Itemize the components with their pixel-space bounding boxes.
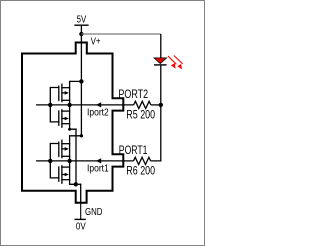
drain/source vertical bus Q2 <box>70 81 82 129</box>
svg-text:Iport2: Iport2 <box>87 107 109 118</box>
junction dot gate/port2 <box>48 103 52 107</box>
current arrow Iport1 <box>96 158 101 163</box>
junction blob V+ corner <box>80 134 83 137</box>
transistor Q1a <box>58 142 60 156</box>
gate bracket wire PORT1 cell <box>50 144 59 178</box>
resistor R5 200 <box>134 101 151 108</box>
svg-text:R5 200: R5 200 <box>126 108 155 122</box>
node V+ junction dot at top <box>79 32 83 36</box>
svg-text:PORT1: PORT1 <box>119 143 148 157</box>
svg-text:GND: GND <box>85 207 102 218</box>
wire V+ to LED (gray) <box>81 33 160 35</box>
svg-text:Iport1: Iport1 <box>87 163 109 174</box>
wire LED cathode down to R5 node <box>160 65 162 105</box>
IC block outline with port tabs <box>22 43 123 203</box>
junction dot gate/port1 <box>48 159 52 163</box>
current arrow Iport2 <box>96 102 101 107</box>
junction dot bus/port2 <box>67 103 71 107</box>
source line from Q2 cell down <box>75 129 77 184</box>
transistor Q1b (mirrored) <box>58 167 60 181</box>
ground symbol <box>75 218 86 220</box>
svg-text:PORT2: PORT2 <box>118 87 148 101</box>
LED emission arrows <box>168 56 183 70</box>
gate bracket wire (gates tied) <box>50 88 59 122</box>
transistor pair cell for PORT2 <box>50 81 81 219</box>
outer frame <box>1 1 205 246</box>
GND wire down through tab <box>80 184 82 203</box>
LED D1 (red) <box>154 58 167 64</box>
svg-text:V+: V+ <box>91 37 101 48</box>
junction dot bus/port1 <box>67 159 71 163</box>
junction blob source jog corner <box>68 128 71 131</box>
resistor R6 200 <box>134 157 151 164</box>
svg-text:0V: 0V <box>76 222 86 233</box>
wire 5V down to V+ node <box>80 25 82 81</box>
junction dot sources merge <box>74 182 78 186</box>
junction dot V+ rail <box>79 79 83 83</box>
drain/source vertical bus Q1 <box>70 136 82 185</box>
svg-text:5V: 5V <box>77 14 87 25</box>
junction dot R5/rail <box>159 103 163 107</box>
V+ internal drop wire <box>80 81 82 135</box>
right rail wire R5 node down to R6 corner <box>151 105 161 161</box>
transistor Q2a <box>58 86 60 100</box>
transistor Q2b (mirrored) <box>58 111 60 125</box>
wire port1 (Iport1) <box>36 160 134 162</box>
wire port2 (Iport2) <box>36 104 134 106</box>
wire down to LED anode <box>160 34 162 58</box>
wire tab to ground bar <box>80 203 82 219</box>
svg-text:R6 200: R6 200 <box>126 164 155 178</box>
